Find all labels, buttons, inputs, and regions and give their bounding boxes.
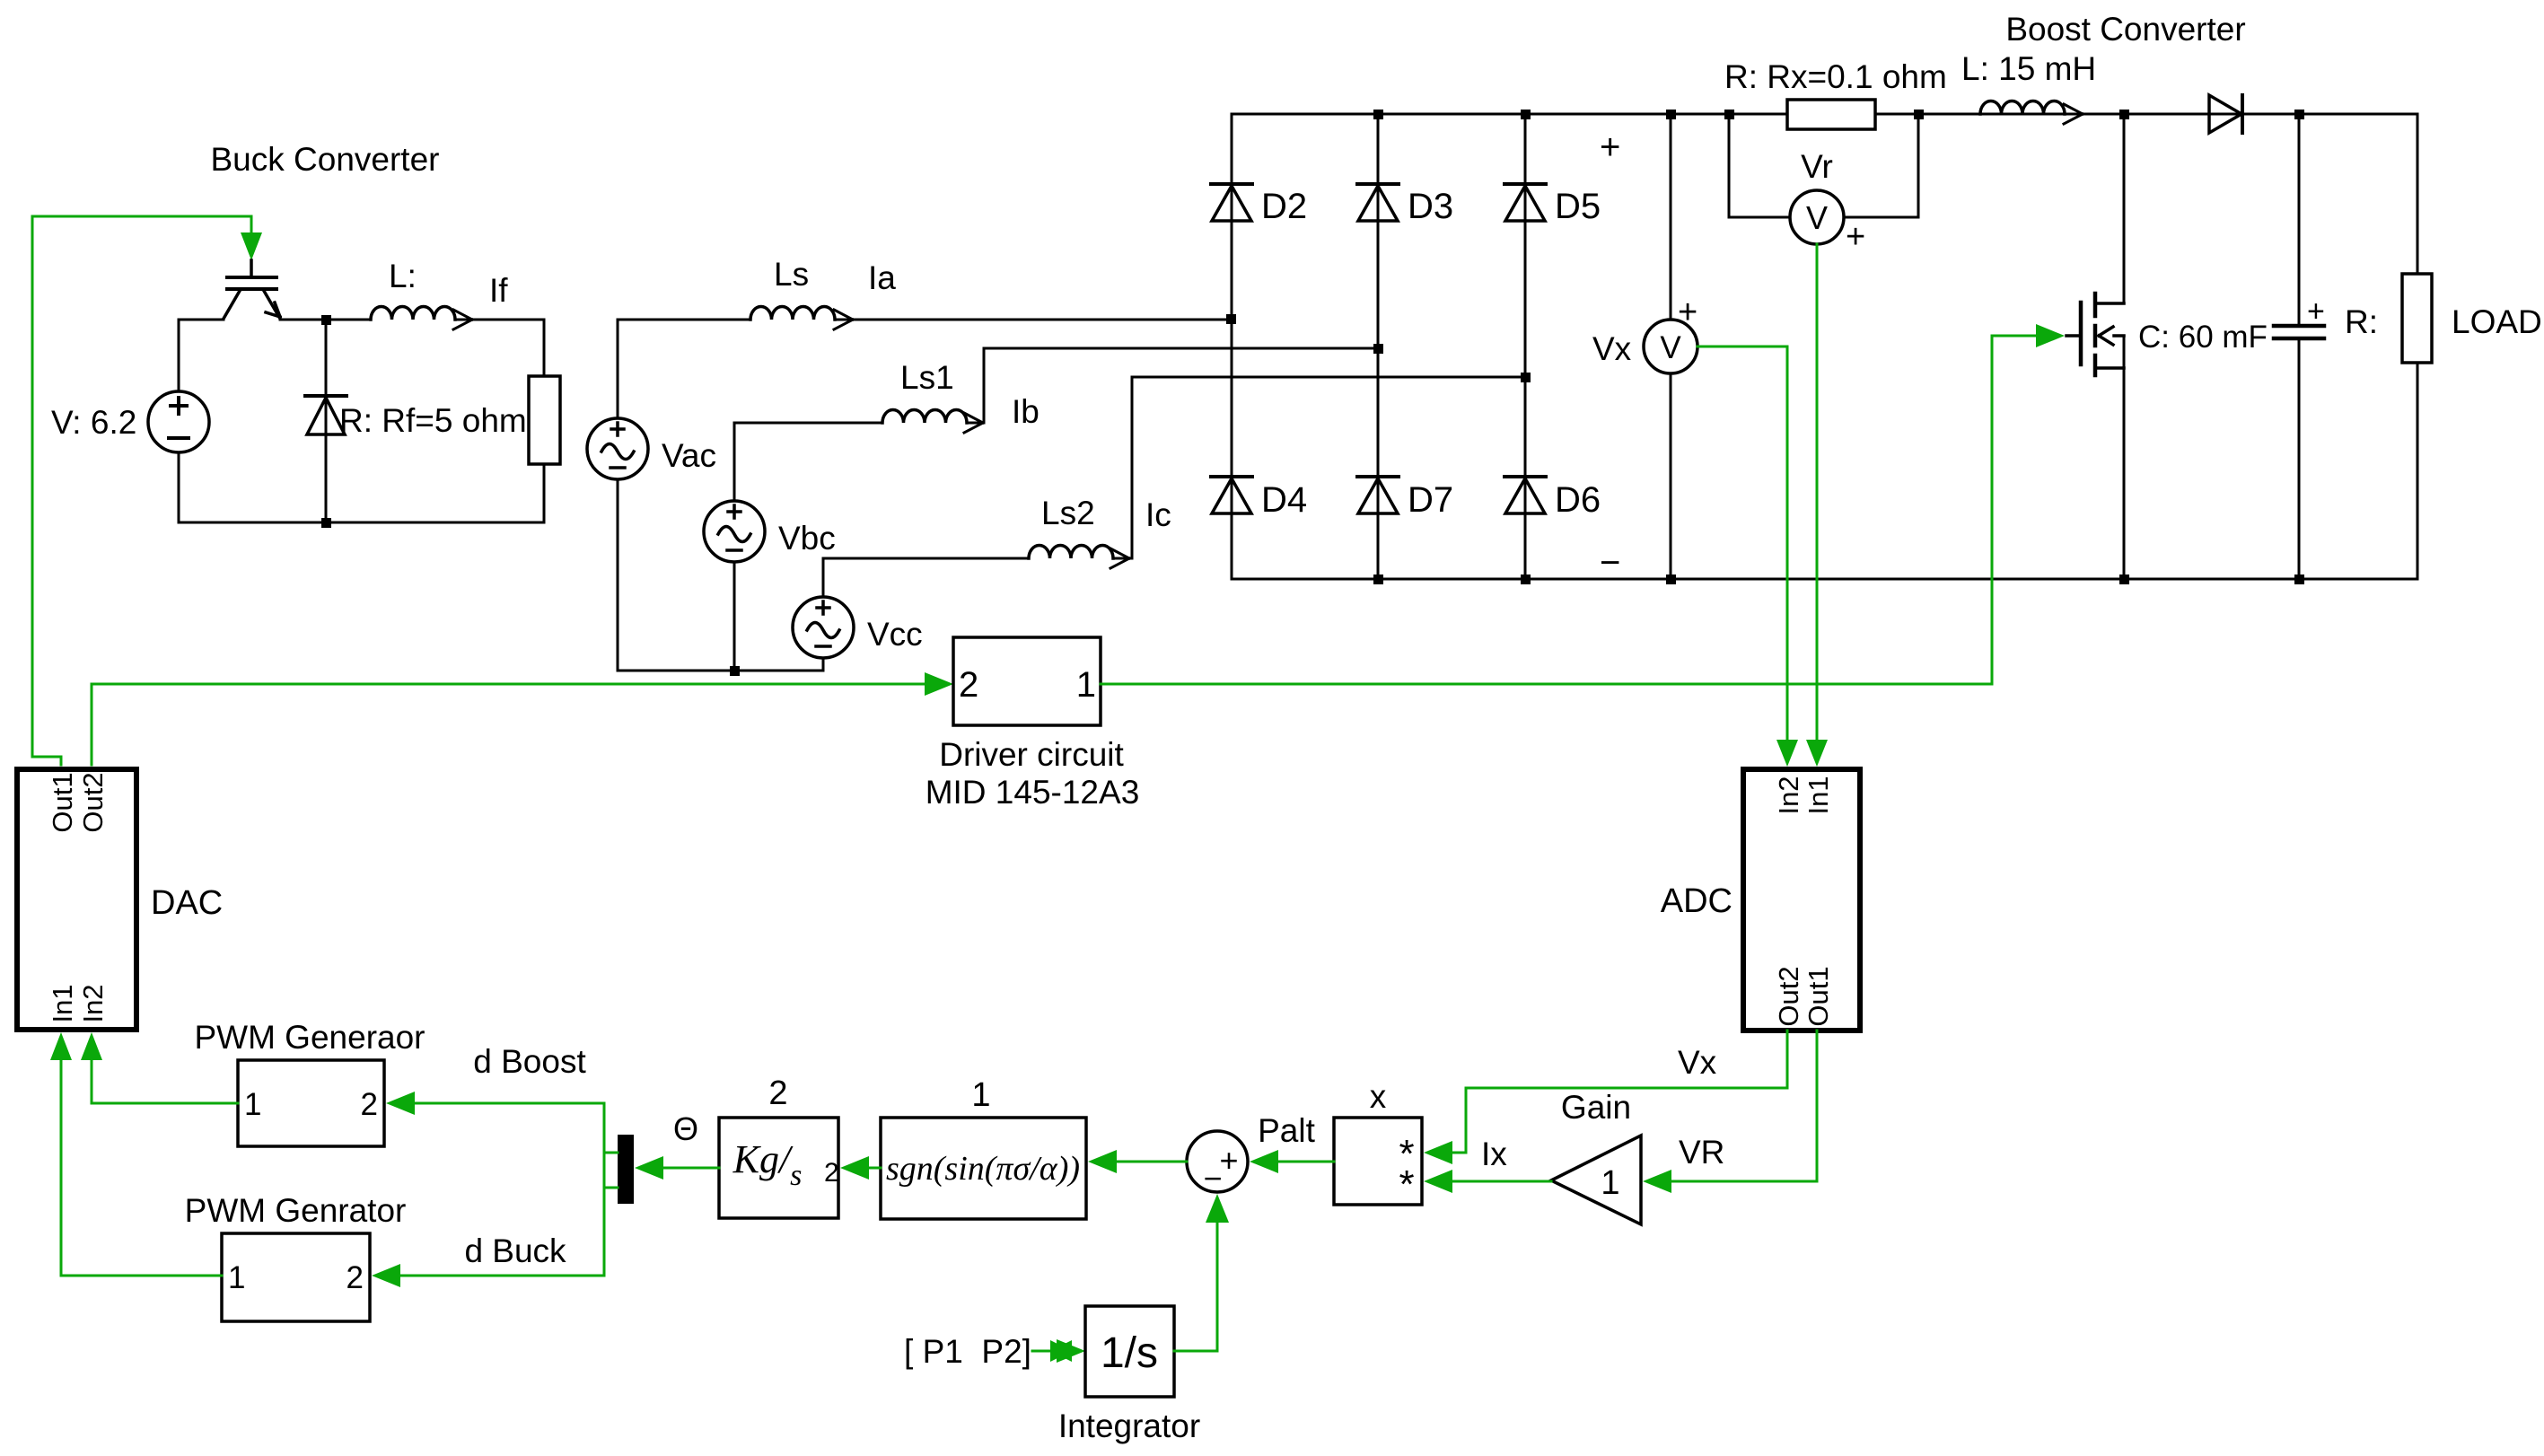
arrow into sum bottom bbox=[1206, 1194, 1229, 1223]
arrow into sum right bbox=[1250, 1150, 1278, 1173]
wire bridge leg c bbox=[1524, 114, 1527, 579]
svg-text:x: x bbox=[1370, 1078, 1387, 1115]
node top bus c bbox=[1521, 110, 1531, 119]
svg-text:Integrator: Integrator bbox=[1058, 1408, 1200, 1444]
svg-text:R: Rx=0.1 ohm: R: Rx=0.1 ohm bbox=[1724, 58, 1947, 95]
svg-text:1: 1 bbox=[228, 1260, 245, 1295]
svg-text:V: V bbox=[1660, 330, 1681, 365]
svg-text:1: 1 bbox=[1076, 665, 1096, 705]
voltage source V: 6.2 bbox=[148, 391, 209, 452]
inductor L boost bbox=[1980, 101, 2065, 114]
arrow into Kg bbox=[840, 1156, 869, 1180]
wire mosfet source bbox=[2123, 336, 2126, 579]
node bus Vr left bbox=[1724, 110, 1734, 119]
wire dc plus bus bbox=[1232, 113, 2417, 116]
wire green multiplier to sum bbox=[1278, 1161, 1334, 1163]
inductor Ls2 bbox=[1029, 546, 1113, 559]
block multiplier bbox=[1334, 1118, 1422, 1205]
node bottom bus b bbox=[1373, 575, 1383, 584]
diode D5 bbox=[1504, 184, 1546, 221]
wire emitter node top bbox=[280, 319, 371, 321]
svg-text:Driver circuit: Driver circuit bbox=[939, 736, 1124, 773]
wire green sum to sgn bbox=[1117, 1161, 1187, 1163]
wire green integrator to sum bbox=[1174, 1223, 1217, 1351]
arrow into gain bbox=[1643, 1170, 1671, 1193]
block integrator bbox=[1085, 1306, 1174, 1397]
svg-text:PWM Generaor: PWM Generaor bbox=[194, 1019, 425, 1056]
arrow into ADC In1 bbox=[1806, 740, 1828, 767]
diode freewheeling buck bbox=[305, 396, 347, 434]
diode D4 bbox=[1211, 477, 1252, 513]
svg-text:DAC: DAC bbox=[151, 884, 223, 922]
wire source bottom bbox=[178, 452, 180, 522]
svg-text:D3: D3 bbox=[1408, 187, 1453, 226]
node bottom bus c bbox=[1521, 575, 1531, 584]
wire green d Buck bbox=[400, 1275, 604, 1277]
svg-text:Ls2: Ls2 bbox=[1041, 495, 1095, 531]
svg-text:Buck Converter: Buck Converter bbox=[211, 141, 440, 178]
svg-text:In1: In1 bbox=[1803, 776, 1834, 814]
diode D6 bbox=[1504, 477, 1546, 513]
svg-text:+: + bbox=[1219, 1142, 1238, 1179]
wire phase c riser bbox=[1113, 377, 1525, 558]
diode boost bbox=[2209, 95, 2242, 133]
svg-text:Out1: Out1 bbox=[47, 772, 78, 832]
svg-text:2: 2 bbox=[824, 1158, 839, 1188]
arrow into IGBT gate bbox=[241, 232, 262, 260]
source Vcc bbox=[793, 597, 854, 658]
svg-text:In2: In2 bbox=[77, 984, 109, 1022]
svg-text:+: + bbox=[1846, 218, 1865, 256]
arrow into ADC In2 bbox=[1776, 740, 1798, 767]
svg-text:Θ: Θ bbox=[673, 1110, 698, 1147]
wire dc minus bus bbox=[1232, 578, 2417, 581]
wire Vx branch bbox=[1670, 114, 1672, 579]
wire gate green horizontal bbox=[32, 215, 251, 218]
svg-text:R:: R: bbox=[2345, 303, 2378, 340]
node bus mosfet drain bbox=[2119, 110, 2129, 119]
block PWM generator boost bbox=[238, 1060, 384, 1146]
svg-text:Ls: Ls bbox=[774, 256, 809, 293]
wire collector to source bbox=[179, 320, 224, 391]
gain triangle bbox=[1551, 1136, 1641, 1224]
svg-text:D2: D2 bbox=[1261, 187, 1307, 226]
svg-text:Vx: Vx bbox=[1678, 1044, 1717, 1081]
svg-text:−: − bbox=[1600, 543, 1620, 583]
svg-text:Palt: Palt bbox=[1258, 1112, 1315, 1149]
svg-text:Ls1: Ls1 bbox=[900, 359, 954, 396]
transistor IGBT buck switch bbox=[224, 260, 280, 319]
svg-text:2: 2 bbox=[768, 1074, 787, 1112]
node bottom bus mosfet bbox=[2119, 575, 2129, 584]
resistor Rx bbox=[1787, 100, 1875, 129]
svg-text:D6: D6 bbox=[1555, 480, 1601, 520]
wire bridge leg b bbox=[1377, 114, 1380, 579]
wire Vr left branch bbox=[1729, 114, 1790, 217]
wire bridge leg a bbox=[1231, 114, 1233, 579]
node bottom bus vx bbox=[1666, 575, 1676, 584]
svg-text:L: 15 mH: L: 15 mH bbox=[1961, 50, 2096, 87]
arrow current Ib bbox=[964, 413, 983, 433]
svg-text:In1: In1 bbox=[47, 984, 78, 1022]
node top bus b bbox=[1373, 110, 1383, 119]
svg-text:V: V bbox=[1806, 199, 1828, 236]
node top bus vx bbox=[1666, 110, 1676, 119]
arrow into mosfet gate bbox=[2036, 324, 2065, 347]
arrow into multiplier input 2 bbox=[1424, 1170, 1452, 1193]
svg-text:Vx: Vx bbox=[1592, 330, 1632, 367]
node phase a junction bbox=[1226, 314, 1236, 324]
svg-text:*: * bbox=[1399, 1162, 1414, 1206]
node top bus cap bbox=[2294, 110, 2304, 119]
svg-text:−: − bbox=[1203, 1160, 1222, 1197]
wire cap branch bbox=[2298, 114, 2301, 579]
svg-text:VR: VR bbox=[1679, 1134, 1724, 1171]
wire resistor bottom bbox=[543, 464, 546, 522]
svg-text:ADC: ADC bbox=[1661, 882, 1733, 920]
wire mosfet drain bbox=[2123, 114, 2126, 303]
node buck bottom junction bbox=[321, 518, 331, 528]
wire green driver to mosfet gate bbox=[1101, 336, 2038, 684]
voltmeter Vx bbox=[1644, 320, 1697, 373]
svg-text:R: Rf=5 ohm: R: Rf=5 ohm bbox=[339, 402, 527, 439]
block PWM generator buck bbox=[222, 1233, 370, 1321]
wire phase b riser bbox=[967, 348, 1378, 423]
svg-text:d Boost: d Boost bbox=[473, 1043, 586, 1080]
diode D3 bbox=[1357, 184, 1399, 221]
svg-text:Vac: Vac bbox=[662, 437, 716, 474]
wire green sgn to Kg bbox=[869, 1167, 881, 1170]
svg-text:In2: In2 bbox=[1773, 776, 1804, 814]
svg-text:L:: L: bbox=[389, 258, 417, 294]
diode D2 bbox=[1211, 184, 1252, 221]
svg-text:D5: D5 bbox=[1555, 187, 1601, 226]
wire gate green vertical left bbox=[32, 216, 61, 765]
svg-text:+: + bbox=[1678, 294, 1697, 331]
node bus Vr right bbox=[1914, 110, 1924, 119]
wire green DAC Out2 to driver bbox=[92, 684, 925, 765]
capacitor C bbox=[2274, 326, 2324, 338]
wire green d Boost bbox=[415, 1102, 604, 1105]
arrow into DAC In1 bbox=[50, 1032, 72, 1060]
arrow current If bbox=[453, 310, 472, 329]
svg-text:+: + bbox=[2307, 294, 2325, 329]
source Vac bbox=[587, 418, 648, 479]
svg-text:d Buck: d Buck bbox=[464, 1232, 566, 1269]
svg-text:sgn(sin(πσ/α)): sgn(sin(πσ/α)) bbox=[886, 1150, 1080, 1188]
resistor LOAD bbox=[2402, 274, 2432, 363]
svg-text:If: If bbox=[489, 272, 508, 309]
wire Vac top bbox=[617, 320, 619, 418]
arrow into mux bbox=[635, 1156, 663, 1180]
svg-text:Gain: Gain bbox=[1561, 1089, 1631, 1126]
source Vbc bbox=[704, 501, 765, 562]
svg-text:1: 1 bbox=[971, 1076, 990, 1114]
svg-text:D7: D7 bbox=[1408, 480, 1453, 520]
svg-text:D4: D4 bbox=[1261, 480, 1307, 520]
svg-text:2: 2 bbox=[361, 1087, 378, 1122]
arrow current Ic bbox=[1110, 548, 1129, 568]
wire gate green drop bbox=[250, 216, 253, 233]
transistor MOSFET boost switch bbox=[2066, 294, 2124, 375]
node phase c junction bbox=[1521, 373, 1531, 382]
wire load branch bbox=[2417, 114, 2419, 579]
svg-text:C: 60 mF: C: 60 mF bbox=[2138, 320, 2268, 355]
wire diode branch bbox=[325, 320, 328, 522]
arrow into multiplier input 1 bbox=[1424, 1141, 1452, 1164]
voltmeter Vr bbox=[1790, 190, 1844, 244]
svg-text:V: 6.2: V: 6.2 bbox=[51, 404, 136, 441]
arrow into DAC In2 bbox=[81, 1032, 102, 1060]
svg-text:Ic: Ic bbox=[1145, 496, 1171, 533]
inductor Ls bbox=[750, 307, 835, 320]
svg-text:1/s: 1/s bbox=[1101, 1329, 1158, 1377]
diode D7 bbox=[1357, 477, 1399, 513]
wire green constant to integrator bbox=[1032, 1350, 1059, 1353]
svg-text:Ib: Ib bbox=[1012, 393, 1040, 430]
wire green gain to multiplier bbox=[1452, 1180, 1551, 1183]
wire green pwm1 to DAC In2 bbox=[92, 1060, 238, 1103]
svg-text:2: 2 bbox=[959, 665, 978, 705]
svg-text:MID 145-12A3: MID 145-12A3 bbox=[925, 774, 1140, 811]
svg-text:Out2: Out2 bbox=[1773, 966, 1804, 1026]
svg-text:[ P1 P2]: [ P1 P2] bbox=[904, 1333, 1031, 1370]
wire green ADC Out2 Vx feedback bbox=[1452, 1031, 1787, 1153]
node phase b junction bbox=[1373, 344, 1383, 354]
svg-text:Vbc: Vbc bbox=[778, 520, 836, 557]
svg-text:+: + bbox=[1600, 127, 1620, 167]
block driver circuit bbox=[953, 637, 1101, 725]
wire buck bottom bus bbox=[179, 522, 544, 524]
inductor Ls1 bbox=[882, 410, 967, 424]
wire green Vr meter to ADC In1 bbox=[1816, 244, 1819, 740]
wire green mux to pwm riser bbox=[603, 1103, 606, 1276]
svg-text:Vcc: Vcc bbox=[867, 616, 923, 653]
arrow into pwm2 input bbox=[372, 1264, 400, 1287]
block ADC bbox=[1743, 769, 1860, 1031]
arrow into integrator bbox=[1057, 1339, 1085, 1363]
arrow current boost L bbox=[2064, 104, 2083, 124]
arrow current Ia bbox=[834, 310, 853, 329]
sum junction bbox=[1187, 1131, 1248, 1192]
arrow into sgn bbox=[1088, 1150, 1117, 1173]
svg-text:2: 2 bbox=[347, 1260, 364, 1295]
resistor Rf bbox=[529, 376, 560, 464]
arrow into pwm1 input bbox=[386, 1092, 415, 1115]
wire Vbc top bbox=[734, 423, 882, 501]
svg-text:Boost Converter: Boost Converter bbox=[2005, 11, 2245, 48]
wire green ADC Out1 VR feedback bbox=[1671, 1031, 1817, 1181]
wire green Kg to mux bbox=[663, 1167, 719, 1170]
svg-text:LOAD: LOAD bbox=[2452, 303, 2542, 340]
wire Vbc bottom bbox=[733, 562, 736, 671]
block sgn bbox=[881, 1118, 1086, 1219]
node sources bottom junction bbox=[730, 666, 740, 676]
svg-text:Ia: Ia bbox=[868, 259, 896, 296]
svg-text:PWM Genrator: PWM Genrator bbox=[185, 1192, 407, 1229]
svg-text:Out1: Out1 bbox=[1803, 966, 1834, 1026]
block DAC bbox=[17, 769, 136, 1030]
wire sources bottom return bbox=[618, 479, 823, 671]
wire green Vx meter to ADC In2 bbox=[1697, 346, 1787, 740]
svg-text:Ix: Ix bbox=[1481, 1136, 1507, 1172]
inductor L buck bbox=[371, 307, 455, 320]
wire green pwm2 to DAC In1 bbox=[61, 1060, 222, 1276]
node bottom bus cap bbox=[2294, 575, 2304, 584]
wire Vr right branch bbox=[1844, 114, 1918, 217]
svg-text:1: 1 bbox=[244, 1087, 261, 1122]
svg-text:Out2: Out2 bbox=[77, 772, 109, 832]
node buck mid junction bbox=[321, 315, 331, 325]
wire phase a bbox=[618, 319, 1232, 321]
wire Vcc top bbox=[823, 558, 1029, 597]
marker bowtie bbox=[1050, 1340, 1072, 1362]
block Kg over s bbox=[719, 1118, 838, 1218]
svg-text:Vr: Vr bbox=[1801, 148, 1833, 185]
arrow into driver input 2 bbox=[925, 672, 953, 696]
wire inductor to resistor bbox=[455, 320, 544, 376]
svg-text:1: 1 bbox=[1601, 1164, 1619, 1202]
wire green mux stubs bbox=[604, 1153, 618, 1188]
mux demux bar bbox=[618, 1135, 634, 1204]
